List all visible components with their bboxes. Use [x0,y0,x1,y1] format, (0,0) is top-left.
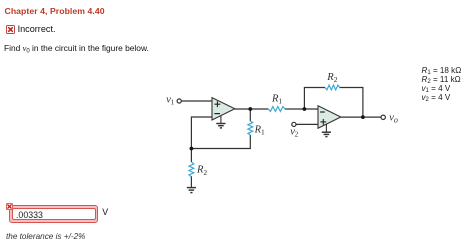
resistor R1 (vertical, below node A) [248,121,253,135]
answer box corner icon [6,203,13,210]
node C (U2 output / feedback) [361,115,365,119]
wire U1 output to R1 horizontal [235,108,269,110]
tolerance note [6,232,85,241]
wire R2 feedback right and down to output [340,88,363,118]
terminal vo [381,115,385,119]
answer box outer [9,205,98,223]
svg-text:vo: vo [389,113,398,125]
wire U1 - input feedback left segment [191,117,212,149]
wire feedback tap up and left to R2 [304,88,325,110]
wire above R1 vertical [249,109,251,121]
svg-text:R1: R1 [271,94,282,106]
header title [5,6,105,16]
wire v2 to U2 + input [296,123,318,125]
resistor R1 (horizontal, between op-amps) [268,107,285,112]
node B (feedback tap at U2 - input) [303,107,307,111]
terminal v1 [177,99,181,103]
svg-text:v1: v1 [166,95,174,107]
op-amp U2 [318,106,341,129]
svg-text:R2: R2 [196,165,207,177]
resistor R2 (bottom left, to ground) [189,162,194,177]
incorrect text [18,24,56,34]
op-amp U1 [212,98,235,120]
ground (below U1) [216,116,225,128]
svg-text:R2: R2 [326,72,337,84]
svg-text:v2: v2 [290,126,298,138]
node D (bottom junction) [190,147,194,151]
wire bottom horizontal node to R1 vertical [191,135,250,149]
node A (U1 output / R1 vertical) [248,107,252,111]
svg-text:R1: R1 [254,124,265,136]
parameter list [422,66,462,103]
incorrect icon [6,25,15,34]
terminal v2 [292,122,296,126]
ground (below U2) [322,124,331,137]
answer box inner field [12,208,96,221]
wire junction to R2 bottom [190,149,192,163]
wire R2 bottom to ground [190,176,192,187]
V unit label [102,207,108,217]
problem statement [4,43,149,53]
wire v1 to op-amp U1 + input [181,100,212,102]
resistor R2 (feedback, top) [325,85,340,90]
wire R1 horizontal to op-amp U2 - input [285,108,318,110]
ground (below bottom R2) [187,188,196,193]
wire U2 output to vo terminal [341,116,382,118]
